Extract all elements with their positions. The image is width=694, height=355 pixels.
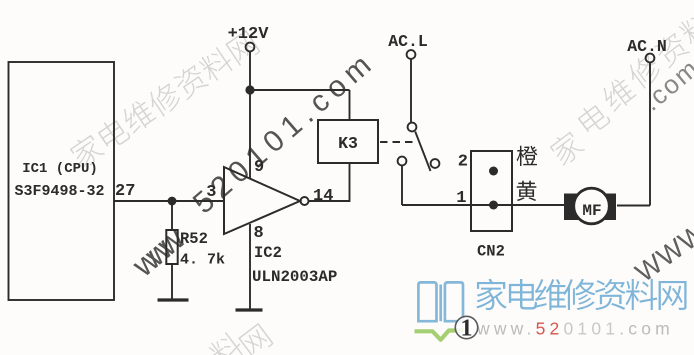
wire IC2 output to K3 — [309, 163, 350, 202]
svg-text:S3F9498-32: S3F9498-32 — [14, 183, 104, 200]
figure number 1 in circle — [455, 316, 477, 342]
relay switch contacts — [398, 123, 440, 171]
svg-text:IC2: IC2 — [254, 244, 282, 262]
wire IC2 pin8 to ground — [249, 224, 251, 309]
svg-text:8: 8 — [254, 224, 264, 243]
pin 9 label — [254, 158, 264, 177]
logo text 家电维修资料网 — [476, 279, 686, 310]
watermark diagonal text center: www.520101.com — [125, 44, 383, 284]
wire +12V down to IC2 pin9 — [249, 51, 251, 179]
motor MF — [564, 188, 616, 224]
logo book icon — [415, 282, 464, 339]
op-amp/driver triangle U: IC2 ULN2003AP — [224, 167, 309, 234]
+12V supply label — [228, 25, 270, 44]
relay coil K3 — [318, 120, 378, 163]
svg-text:IC1 (CPU): IC1 (CPU) — [22, 161, 98, 177]
svg-text:www.520101.com: www.520101.com — [476, 319, 674, 339]
svg-text:AC.N: AC.N — [627, 37, 667, 56]
watermark diagonal text upper-left: 家电维修资料网 — [67, 30, 260, 170]
svg-text:K3: K3 — [338, 134, 358, 153]
junction node at R52 — [168, 197, 177, 206]
pin 8 label — [254, 224, 264, 243]
wire color label yellow — [517, 181, 537, 201]
wire AC.L to switch — [410, 59, 412, 123]
svg-text:CN2: CN2 — [477, 243, 505, 261]
CN2 pin 1 label — [456, 189, 466, 208]
svg-text:MF: MF — [582, 202, 601, 220]
wire IC1 pin27 to IC2 input — [114, 200, 224, 202]
wire junction to R52 — [171, 201, 173, 230]
wire +12V to K3 coil — [250, 90, 350, 120]
IC1 CPU box — [9, 62, 115, 300]
svg-text:4. 7k: 4. 7k — [180, 252, 225, 269]
ULN2003AP value label — [252, 268, 337, 286]
CN2 reference label — [477, 243, 505, 261]
svg-text:2: 2 — [458, 153, 468, 172]
junction node +12V/K3 — [245, 85, 254, 94]
ground (R52) — [158, 298, 189, 301]
pin 3 label — [206, 183, 216, 202]
wire switch to CN2 — [402, 165, 471, 205]
wire CN2 to motor — [512, 204, 565, 206]
svg-text:14: 14 — [313, 187, 333, 206]
svg-text:AC.L: AC.L — [388, 32, 428, 51]
watermark diagonal text right: 家电维修资料 — [547, 8, 694, 167]
+12V terminal — [246, 43, 255, 52]
svg-text:.com: .com — [637, 52, 694, 116]
IC2 label — [254, 244, 282, 262]
ground (IC2 pin8) — [236, 308, 263, 311]
pin 14 label — [313, 187, 333, 206]
AC.N label — [627, 37, 667, 56]
watermark fragment bottom-right: WWW — [630, 217, 694, 288]
watermark fragment bottom-center: 料网 — [207, 323, 274, 355]
AC.L terminal — [407, 50, 416, 59]
wire motor to AC.N — [617, 62, 650, 205]
dashed mechanical link K3 to switch — [380, 141, 413, 143]
AC.N terminal — [646, 54, 655, 63]
CN2 pin 2 label — [458, 153, 468, 172]
wire color label orange — [517, 146, 538, 166]
svg-text:+12V: +12V — [228, 25, 270, 44]
connector CN2 — [471, 151, 512, 231]
svg-text:27: 27 — [115, 182, 135, 201]
watermark faint pink fragment upper-right — [637, 52, 694, 116]
svg-text:ULN2003AP: ULN2003AP — [252, 268, 337, 286]
svg-text:1: 1 — [461, 316, 473, 342]
pin 27 label — [115, 182, 135, 201]
logo url www.520101.com — [476, 319, 674, 339]
svg-text:3: 3 — [206, 183, 216, 202]
resistor R52 — [166, 230, 225, 269]
AC.L label — [388, 32, 428, 51]
svg-text:9: 9 — [254, 158, 264, 177]
wire R52 to ground — [171, 264, 173, 299]
svg-text:WWW: WWW — [630, 217, 694, 288]
svg-text:1: 1 — [456, 189, 466, 208]
svg-text:R52: R52 — [180, 230, 208, 248]
